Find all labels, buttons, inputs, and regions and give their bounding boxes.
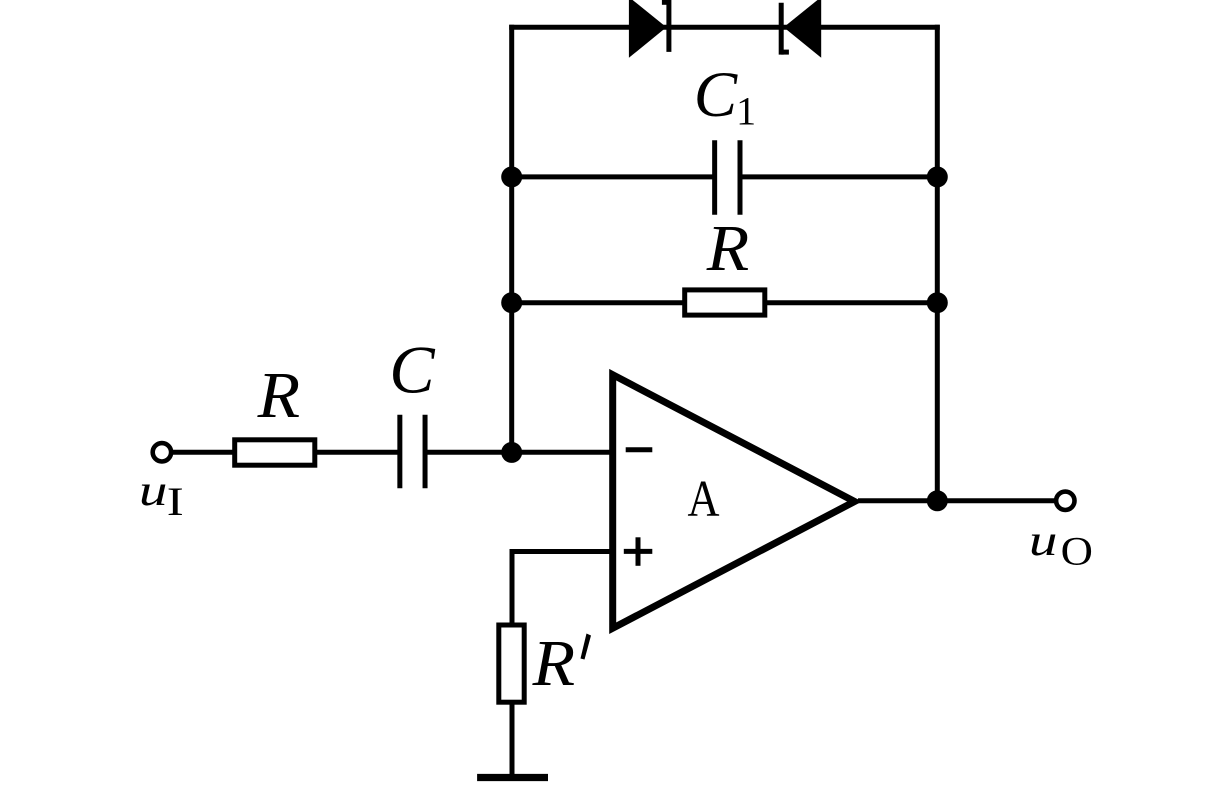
- diode D1 (left zener, anode left, pointing right): [629, 0, 669, 58]
- terminal: input u_I (open circle): [153, 443, 171, 461]
- ground: [477, 774, 548, 781]
- wire: inverting node to op-amp minus input: [512, 450, 614, 455]
- svg-text:A: A: [688, 471, 720, 528]
- op-amp plus sign (non-inverting input marker): [624, 537, 653, 566]
- node: inverting input junction (dot): [501, 442, 522, 463]
- svg-text:u: u: [1029, 516, 1058, 565]
- node: right R junction (dot): [927, 292, 948, 313]
- label u_O (output voltage): [1029, 516, 1093, 574]
- wire: C1 row right segment: [741, 174, 938, 179]
- svg-text:R: R: [532, 627, 576, 700]
- node: output junction (dot): [927, 490, 948, 511]
- svg-text:1: 1: [736, 89, 756, 134]
- terminal: output u_O (open circle): [1056, 492, 1074, 510]
- wire: R row right segment: [760, 300, 937, 305]
- op-amp minus sign (inverting input marker): [626, 447, 653, 452]
- svg-text:O: O: [1061, 529, 1093, 574]
- capacitor C (input, plates): [400, 415, 425, 489]
- wire: R row left segment: [512, 300, 690, 305]
- resistor R (input): [235, 440, 315, 465]
- wire: top rail with diodes: [512, 25, 938, 30]
- wire: op-amp output to output terminal: [858, 498, 1055, 503]
- label R' (non-inverting bias resistor): [532, 627, 591, 700]
- svg-text:I: I: [167, 479, 184, 524]
- wire: resistor R to capacitor C: [316, 450, 399, 455]
- svg-text:C: C: [694, 59, 738, 131]
- svg-text:C: C: [389, 332, 435, 408]
- label C1: [694, 59, 756, 134]
- svg-text:R: R: [257, 359, 301, 432]
- label u_I (input voltage): [139, 466, 184, 524]
- svg-text:R: R: [706, 212, 750, 285]
- wire: right feedback rail (top-right corner down to output node): [935, 27, 940, 501]
- resistor R (feedback): [685, 290, 765, 315]
- resistor R': [499, 625, 524, 702]
- wire: left feedback rail (inverting node up to top-left corner): [509, 27, 514, 452]
- node: left R junction (dot): [501, 292, 522, 313]
- wire: capacitor C to inverting node: [426, 450, 514, 455]
- wire: R' to ground: [510, 700, 515, 776]
- node: right C1 junction (dot): [927, 166, 948, 187]
- diode D2 (right zener, anode right, pointing left): [781, 0, 821, 58]
- node: left C1 junction (dot): [501, 166, 522, 187]
- wire: input terminal to resistor R: [172, 450, 236, 455]
- op-amp U1 triangle: [613, 375, 855, 629]
- capacitor C1 (plates): [715, 140, 740, 215]
- svg-text:u: u: [139, 466, 168, 515]
- wire: non-inverting input to R' (corner): [512, 552, 614, 627]
- wire: C1 row left segment: [512, 174, 714, 179]
